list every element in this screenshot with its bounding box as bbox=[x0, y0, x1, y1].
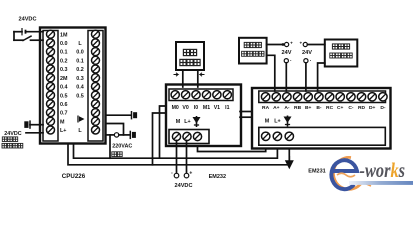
lower water tank level detect box (chinese) bbox=[239, 38, 267, 64]
svg-text:C+: C+ bbox=[337, 105, 344, 111]
CPU226 left input terminal strip bbox=[43, 31, 58, 142]
switch S1 lever bbox=[14, 39, 23, 41]
wire EM232 supply stair 1 bbox=[160, 106, 167, 158]
svg-text:1M: 1M bbox=[60, 32, 68, 38]
svg-text:0.4: 0.4 bbox=[60, 85, 68, 91]
svg-text:0.0: 0.0 bbox=[76, 50, 84, 56]
svg-text:24V: 24V bbox=[282, 50, 292, 56]
svg-text:L+: L+ bbox=[274, 119, 280, 125]
EM232 terminal strip bbox=[169, 89, 233, 101]
wire EM232 to EM231 link lower bbox=[240, 116, 253, 118]
battery B1 24VDC bbox=[21, 28, 23, 35]
arrow marks on controller wires bbox=[174, 73, 179, 76]
svg-text:24VDC: 24VDC bbox=[18, 17, 36, 23]
EM231 analog ground symbol bbox=[287, 116, 289, 127]
wire battery left drop bbox=[13, 32, 15, 41]
EM231 power sub-terminal box bbox=[259, 127, 386, 145]
wire bus M/ground from CPU226 to ground point bbox=[68, 144, 289, 165]
label sensor (chinese) bbox=[2, 137, 7, 142]
motor speed controller box (chinese) bbox=[176, 42, 204, 70]
svg-text:0.3: 0.3 bbox=[60, 67, 68, 73]
svg-text:0.1: 0.1 bbox=[60, 50, 68, 56]
EM232 power sub-terminal box bbox=[169, 130, 209, 144]
svg-text:M: M bbox=[265, 119, 270, 125]
svg-text:+: + bbox=[189, 171, 192, 177]
svg-text:0.6: 0.6 bbox=[60, 102, 68, 108]
e-works watermark logo bbox=[331, 157, 413, 189]
svg-text:L+: L+ bbox=[60, 128, 66, 134]
wire EM232 M to EM231 M link bbox=[198, 140, 266, 152]
wire CPU226 L1 bend down bbox=[106, 124, 124, 135]
label power output (chinese) bbox=[2, 143, 7, 148]
svg-text:M0: M0 bbox=[172, 105, 179, 111]
svg-text:M1: M1 bbox=[203, 105, 210, 111]
svg-text:0.0: 0.0 bbox=[60, 41, 68, 47]
sensor supply plug symbol bbox=[24, 121, 28, 128]
wire lower tank signal to A+ bbox=[267, 55, 275, 91]
wire battery plus to input strip bbox=[14, 31, 22, 33]
wire upper tank signal to B- bbox=[318, 63, 325, 91]
wire EM232 L+ drop to 24VDC supply bbox=[186, 141, 188, 174]
wire EM232 to EM231 link upper bbox=[240, 111, 253, 113]
EM231 terminal strip bbox=[259, 91, 386, 103]
plug symbol P2 bbox=[129, 131, 131, 139]
svg-text:A+: A+ bbox=[273, 105, 280, 111]
EM231 analog input module outline bbox=[252, 88, 391, 149]
svg-text:I0: I0 bbox=[194, 105, 198, 111]
svg-text:+: + bbox=[290, 41, 293, 46]
svg-text:2M: 2M bbox=[60, 76, 68, 82]
svg-text:RB: RB bbox=[294, 105, 302, 111]
svg-text:0.3: 0.3 bbox=[76, 76, 84, 82]
svg-text:CPU226: CPU226 bbox=[62, 173, 86, 180]
wire EM232 supply stair 2 bbox=[153, 113, 167, 165]
svg-text:M: M bbox=[60, 119, 65, 125]
svg-text:0.5: 0.5 bbox=[76, 93, 84, 99]
upper water tank level detect box (chinese) bbox=[325, 40, 358, 67]
svg-text:-works: -works bbox=[360, 159, 406, 182]
svg-text:24VDC: 24VDC bbox=[174, 183, 192, 189]
svg-text:0.7: 0.7 bbox=[60, 111, 68, 117]
wire sensor supply M bbox=[30, 124, 43, 126]
24VDC supply terminal circles bbox=[174, 173, 179, 178]
svg-text:M: M bbox=[176, 119, 181, 125]
wire bus L+ from CPU226 to EM231 bbox=[74, 140, 278, 158]
CPU226 right output terminal strip bbox=[88, 31, 103, 142]
plug symbol P1 bbox=[131, 111, 133, 119]
wire 24V-2 down to B+ bbox=[305, 63, 307, 91]
svg-text:D+: D+ bbox=[369, 105, 376, 111]
24V supply 1 bbox=[267, 44, 284, 46]
wire 24V-1 minus down to A- bbox=[285, 63, 287, 91]
wire EM232 M drop to 24VDC supply bbox=[176, 141, 178, 174]
PLC CPU226 block outline bbox=[40, 28, 106, 144]
wire sensor supply L+ bbox=[26, 132, 43, 134]
svg-text:V0: V0 bbox=[182, 105, 188, 111]
wire CPU226 N to plug bbox=[106, 114, 131, 116]
CPU226 PE/diode symbol in label column bbox=[78, 116, 85, 123]
svg-text:24VDC: 24VDC bbox=[4, 131, 21, 137]
svg-text:I1: I1 bbox=[225, 105, 229, 111]
svg-text:A-: A- bbox=[284, 105, 290, 111]
svg-text:B+: B+ bbox=[305, 105, 312, 111]
svg-text:V1: V1 bbox=[214, 105, 220, 111]
svg-text:C-: C- bbox=[348, 105, 354, 111]
svg-text:B-: B- bbox=[316, 105, 322, 111]
svg-text:0.2: 0.2 bbox=[76, 67, 84, 73]
svg-text:D-: D- bbox=[380, 105, 386, 111]
label power (chinese) bbox=[112, 152, 117, 157]
wire controller to M0 bbox=[182, 70, 184, 87]
svg-text:0.2: 0.2 bbox=[60, 58, 68, 64]
svg-text:EM232: EM232 bbox=[209, 174, 226, 180]
svg-text:220VAC: 220VAC bbox=[112, 143, 132, 149]
svg-text:0.4: 0.4 bbox=[76, 85, 84, 91]
wire EM231 ground drop bbox=[288, 140, 290, 160]
svg-text:RA: RA bbox=[262, 105, 270, 111]
svg-text:+: + bbox=[299, 40, 302, 45]
EM232 analog ground symbol bbox=[196, 116, 198, 127]
ground symbol bottom bbox=[285, 160, 294, 169]
svg-text:EM231: EM231 bbox=[308, 169, 325, 175]
svg-text:0.1: 0.1 bbox=[76, 58, 84, 64]
wire controller to V0 bbox=[197, 70, 199, 87]
wire AC junction drop to bus bbox=[109, 135, 111, 158]
svg-text:RD: RD bbox=[358, 105, 366, 111]
wire CPU226 L row with junction circle bbox=[106, 134, 115, 136]
svg-text:L+: L+ bbox=[184, 119, 190, 125]
EM232 analog output module outline bbox=[166, 85, 241, 147]
svg-text:RC: RC bbox=[326, 105, 334, 111]
svg-text:24V: 24V bbox=[302, 50, 312, 56]
svg-text:0.5: 0.5 bbox=[60, 93, 68, 99]
